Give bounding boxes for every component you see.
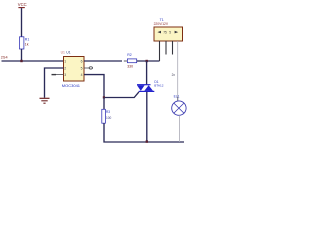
- junction node: [146, 60, 148, 62]
- svg-text:MOC3041: MOC3041: [62, 83, 81, 88]
- wire junction to R3: [103, 98, 105, 110]
- svg-text:6: 6: [81, 60, 83, 64]
- power port VCC: [18, 2, 27, 7]
- svg-text:220V/12V: 220V/12V: [154, 22, 169, 26]
- svg-text:1k: 1k: [25, 43, 29, 47]
- wire input row to U1 pin1: [2, 60, 64, 62]
- pin 5 stub: [84, 67, 89, 69]
- svg-text:5: 5: [169, 31, 171, 35]
- T1 leg pin 1: [159, 41, 161, 61]
- wire R3 to bottom: [104, 123, 184, 142]
- svg-text:VCC: VCC: [18, 2, 27, 7]
- resistor R1: [20, 37, 24, 49]
- wire R1 to node: [21, 49, 23, 61]
- wire lamp to bottom (light): [179, 115, 181, 142]
- wire R2 to T1 leg: [137, 60, 160, 62]
- wire junction down to triac: [146, 61, 148, 84]
- svg-text:BTA12: BTA12: [154, 84, 164, 88]
- T1 leg pin 2: [165, 41, 167, 55]
- svg-text:100: 100: [106, 116, 112, 120]
- wire lamp top stub: [177, 97, 179, 101]
- svg-text:R3: R3: [106, 110, 110, 114]
- svg-text:R1: R1: [25, 38, 30, 42]
- junction node: [146, 140, 148, 142]
- optocoupler U1: [64, 57, 85, 82]
- wire U1 pin6 to R2: [84, 60, 122, 62]
- junction node: [20, 60, 22, 62]
- svg-text:EL1: EL1: [174, 94, 180, 98]
- resistor R2: [127, 59, 136, 63]
- gate wire: [104, 92, 139, 98]
- wire triac to bottom: [146, 92, 148, 142]
- svg-text:75: 75: [163, 31, 167, 35]
- junction node: [103, 96, 105, 98]
- pin 3 stub: [56, 74, 64, 76]
- ground: [40, 98, 50, 103]
- transformer module T1: [154, 27, 183, 41]
- svg-text:1: 1: [64, 60, 66, 64]
- wire U1 pin4: [84, 75, 104, 98]
- svg-text:5: 5: [81, 67, 83, 71]
- wire VCC to R1: [21, 8, 23, 37]
- svg-text:2: 2: [64, 67, 66, 71]
- lamp cross stroke: [174, 103, 184, 113]
- svg-text:330: 330: [127, 64, 133, 68]
- svg-text:U1: U1: [66, 50, 70, 54]
- lamp EL1: [172, 101, 186, 115]
- svg-text:2S4: 2S4: [1, 55, 8, 59]
- svg-text:3: 3: [64, 73, 66, 77]
- svg-text:U1: U1: [61, 50, 65, 54]
- svg-text:2x: 2x: [172, 73, 176, 77]
- wire T1 to lamp (light): [177, 41, 179, 97]
- T1 leg pin 3: [172, 41, 174, 55]
- wire U1 pin2 to ground: [45, 68, 64, 98]
- T1 internal marks: [157, 31, 178, 34]
- svg-text:R2: R2: [127, 53, 132, 57]
- resistor R3: [102, 109, 106, 123]
- svg-text:4: 4: [81, 73, 83, 77]
- triac D1: [137, 84, 154, 92]
